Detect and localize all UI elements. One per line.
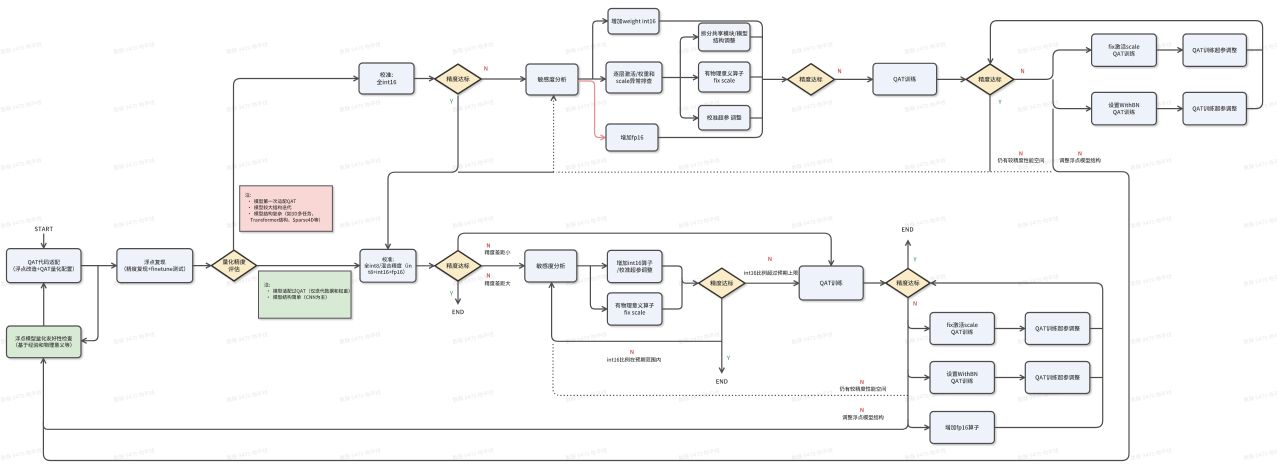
- wire B4-Y up to END: [907, 242, 909, 269]
- note green text: [264, 283, 349, 300]
- label Y at B3: [727, 356, 730, 360]
- wire B3 loop back to sensitivity bottom: [552, 284, 722, 341]
- wire T1-Y down into calib int8 top: [388, 96, 458, 248]
- process QAT code adapt text: [14, 260, 74, 272]
- decision quantization precision evaluate text: [223, 259, 246, 272]
- wire calib int8 to B2: [416, 265, 433, 267]
- wire dashed up into sensitivity top: [553, 97, 555, 172]
- process add int16 ops / calib tune text: [617, 260, 653, 273]
- decision T3 precision-ok top: [966, 64, 1014, 95]
- process add fp16 op text: [945, 425, 979, 431]
- wire QAT adapt to float reproduce: [81, 265, 115, 267]
- label Y at B2: [450, 291, 453, 295]
- process QAT hyperparam tune C text: [1036, 326, 1080, 332]
- process layerwise act/weight scale check text: [614, 71, 655, 83]
- process sensitivity analysis bottom text: [536, 263, 565, 268]
- node END below B3: [716, 379, 727, 383]
- wire B2-N-big to sensitivity bottom: [481, 265, 523, 267]
- wire big feedback to friendliness check: [43, 109, 1129, 461]
- note green adapted QAT: [259, 271, 352, 318]
- decision B2 precision-ok bottom text: [447, 263, 470, 268]
- wire physical merge right: [750, 76, 762, 78]
- decision T2 precision-ok top: [788, 64, 835, 95]
- process calib all-int16 text: [377, 72, 397, 85]
- wire calib-tune merge right: [750, 117, 762, 119]
- process QAT hyperparam tune B: [1183, 92, 1246, 124]
- wire add-int16 merge to B3: [662, 266, 697, 283]
- wire layerwise to calib hyperparam tune: [680, 78, 697, 119]
- wire friendliness check up to QAT adapt: [43, 284, 45, 326]
- wire fix-act to tune C: [994, 328, 1023, 330]
- process set WithBN QAT training top text: [1109, 103, 1140, 116]
- process calib hyperparam tune text: [707, 115, 742, 120]
- process float-model quantization friendliness check: [7, 326, 82, 358]
- process float reproduce: [117, 249, 193, 283]
- label N adjust-float-structure top: [1078, 151, 1081, 155]
- process fix act scale QAT training top: [1092, 34, 1157, 66]
- wire T3-Y down: [989, 95, 991, 172]
- decision T3 precision-ok top text: [979, 77, 1002, 82]
- decision T2 precision-ok top text: [800, 77, 823, 82]
- process QAT training top text: [894, 76, 917, 82]
- wire withbn to tune B: [1156, 108, 1181, 110]
- process add weight int16: [608, 9, 659, 35]
- label still precision space top: [998, 158, 1044, 163]
- process QAT code adapt: [7, 249, 82, 283]
- decision B4 precision-ok bottom-right text: [897, 280, 920, 285]
- label N at T2: [838, 69, 841, 73]
- wire B4-N down to add-fp16-op and big left feedback: [43, 298, 908, 430]
- process float reproduce text: [125, 260, 186, 272]
- decision B2 precision-ok bottom: [435, 251, 481, 281]
- process fix act scale QAT training top text: [1109, 44, 1140, 57]
- wire merged to T2: [762, 78, 785, 80]
- process QAT hyperparam tune C: [1025, 313, 1090, 345]
- wire eval diamond to calib int8 box: [257, 265, 359, 267]
- wire branch to add fp16 op: [908, 419, 928, 428]
- label N still-precision-space top: [1019, 151, 1022, 155]
- label int16 ratio over limit: [744, 270, 798, 275]
- process set WithBN QAT training bottom: [930, 362, 994, 394]
- wire calib int16 to T1: [414, 78, 433, 80]
- wire fix-act to tune A: [1156, 49, 1181, 51]
- label still precision space bottom: [840, 386, 886, 391]
- decision T1 precision-ok top: [435, 64, 481, 94]
- node START text: [35, 227, 53, 232]
- process calib int8/mixed text: [364, 257, 411, 275]
- decision T1 precision-ok top text: [447, 76, 470, 81]
- wire add-weight-int16 merge right: [659, 21, 762, 79]
- decision B3 precision-ok bottom: [699, 268, 745, 298]
- wire add-fp16 merge right: [658, 79, 762, 137]
- process physical-meaning op fix scale bottom: [607, 293, 662, 325]
- process set WithBN QAT training bottom text: [947, 371, 978, 384]
- wire QAT training bottom to B4: [863, 282, 884, 284]
- wire dotted back to sensitivity top horizontal: [556, 171, 1051, 174]
- process physical-meaning op fix scale bottom text: [615, 303, 654, 315]
- label N int16-in-range: [630, 350, 633, 354]
- wire T1-N to sensitivity analysis top: [481, 78, 524, 80]
- wire eval diamond up to calib int16: [234, 79, 358, 251]
- label Y at T1: [450, 99, 453, 103]
- label adjust float structure bottom: [842, 415, 883, 420]
- process sensitivity analysis bottom: [525, 250, 577, 282]
- wire T3-N split to fix-act-scale: [1014, 50, 1090, 79]
- wire sensitivity branch to physical fix scale bottom: [590, 266, 605, 309]
- process QAT hyperparam tune D: [1025, 362, 1090, 394]
- wire layerwise to physical fix scale: [662, 77, 697, 79]
- process physical-meaning op fix scale top: [699, 62, 751, 92]
- process calib hyperparam tune: [699, 106, 751, 131]
- process calib int8/mixed: [360, 249, 416, 282]
- wire branch up to add weight int16: [593, 21, 607, 79]
- label adjust float structure top: [1059, 158, 1100, 163]
- wire solid segment to dashed junction: [458, 171, 554, 173]
- process add int16 ops / calib tune: [607, 250, 662, 282]
- wire B3-Y down to END: [721, 298, 723, 371]
- wire tune C merge right: [1090, 328, 1103, 330]
- wire B3-N to QAT training bottom: [745, 282, 798, 284]
- label N int16-over at B3: [768, 257, 771, 261]
- process set WithBN QAT training top: [1092, 92, 1157, 124]
- wire branch to set withbn bottom: [908, 369, 928, 378]
- process add fp16: [606, 124, 658, 151]
- label N still-precision-space bottom: [860, 380, 863, 384]
- process float-model quantization friendliness check text: [15, 336, 72, 347]
- wire B2-Y down to END: [457, 281, 459, 303]
- wire float reproduce to quant-eval diamond: [193, 265, 210, 267]
- process QAT training top: [873, 63, 937, 95]
- wire T2-N to QAT training top: [835, 78, 872, 80]
- wire B2-N-small up over to QAT training bottom: [458, 233, 831, 264]
- process split shared module / structure adjust: [699, 23, 751, 51]
- wire tune D merge right: [1090, 377, 1103, 379]
- node END below B2: [453, 310, 464, 314]
- process QAT hyperparam tune B text: [1193, 106, 1237, 112]
- label precision gap big: [485, 281, 511, 286]
- process fix act scale QAT training bottom text: [947, 322, 978, 335]
- label N at T1: [484, 66, 487, 70]
- process sensitivity analysis top: [526, 64, 578, 95]
- process QAT hyperparam tune A: [1183, 34, 1246, 66]
- process split shared module / structure adjust text: [701, 31, 748, 43]
- process QAT training bottom text: [820, 280, 843, 286]
- process fix act scale QAT training bottom: [930, 313, 994, 345]
- wire sensitivity to add int16 ops: [577, 265, 606, 267]
- wire tune B loop back to T3 top: [990, 21, 1262, 109]
- wire T3-N split to set withbn: [1053, 79, 1090, 108]
- note pink first-time QAT: [240, 186, 333, 232]
- label Y at B4: [913, 257, 916, 261]
- node END above B4: [902, 227, 913, 231]
- process QAT hyperparam tune D text: [1036, 375, 1080, 381]
- process layerwise act/weight scale check: [606, 62, 662, 93]
- wire branch down to friendliness check: [83, 266, 98, 341]
- wire split-shared merge right: [750, 36, 762, 38]
- process add fp16 op: [930, 412, 994, 444]
- wire physical merge to B3: [662, 277, 682, 309]
- process physical-meaning op fix scale top text: [705, 71, 744, 83]
- decision B4 precision-ok bottom-right: [886, 268, 930, 297]
- wire branch to fix act scale bottom: [908, 320, 928, 329]
- wire add-fp16 loop back to B4: [932, 283, 1102, 428]
- label N big-gap at B2: [487, 273, 490, 277]
- wire sensitivity to layerwise check: [578, 78, 604, 80]
- label Y at T3: [998, 100, 1001, 104]
- process QAT training bottom: [799, 266, 863, 300]
- process QAT hyperparam tune A text: [1193, 47, 1237, 53]
- wire START down to QAT adapt box: [43, 234, 45, 247]
- wire dotted bottom loop to sensitivity bottom: [553, 344, 908, 395]
- process add fp16 text: [621, 135, 644, 141]
- label N at T3: [1021, 69, 1024, 73]
- process calib all-int16: [359, 63, 414, 94]
- label N below B4: [914, 301, 917, 305]
- wire tune A merge right: [1246, 49, 1262, 51]
- note pink text: [245, 193, 320, 223]
- label precision gap small: [485, 250, 511, 255]
- wire layerwise to split-shared box: [680, 37, 697, 78]
- process sensitivity analysis top text: [538, 77, 567, 82]
- wire red sensitivity to add fp16: [578, 81, 604, 138]
- wire QAT training to T3: [937, 78, 965, 80]
- decision quantization precision evaluate: [211, 250, 256, 281]
- process add weight int16 text: [611, 19, 655, 25]
- label N adjust-float-structure bottom: [860, 408, 863, 412]
- decision B3 precision-ok bottom text: [710, 280, 733, 285]
- label N small-gap at B2: [487, 243, 490, 247]
- label int16 ratio in range: [607, 357, 661, 362]
- wire withbn to tune D: [994, 377, 1023, 379]
